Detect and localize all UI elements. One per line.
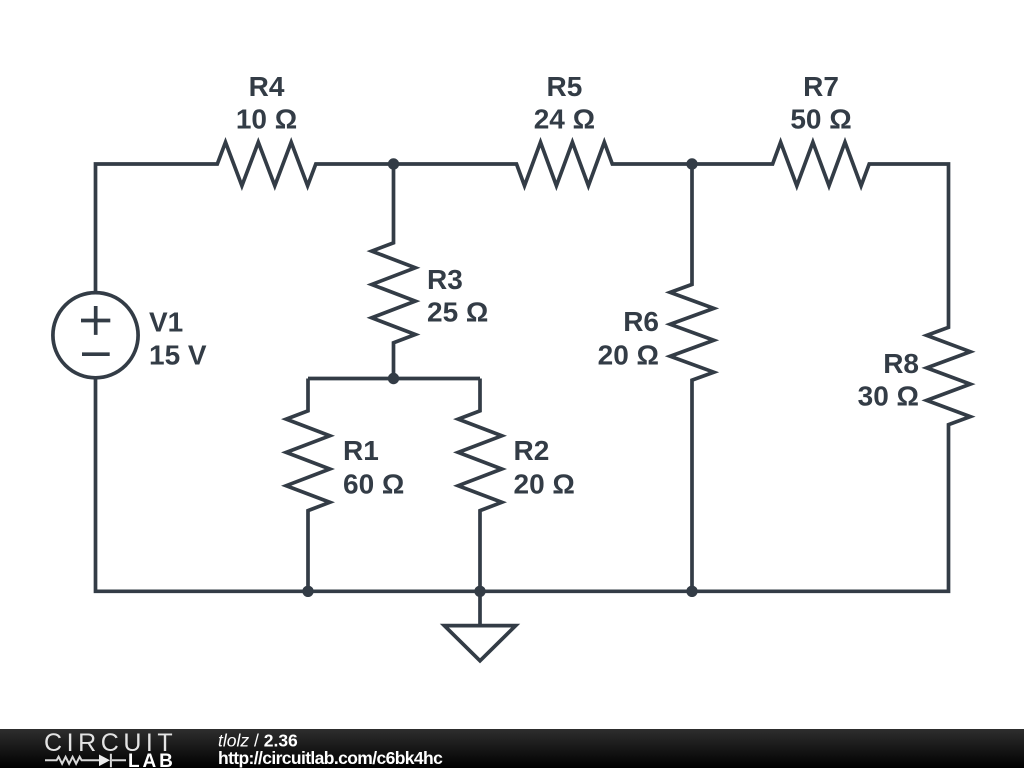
svg-text:R1: R1 — [343, 435, 379, 466]
svg-text:25 Ω: 25 Ω — [427, 296, 488, 327]
svg-text:10 Ω: 10 Ω — [236, 103, 297, 134]
svg-text:R3: R3 — [427, 264, 463, 295]
svg-text:60 Ω: 60 Ω — [343, 469, 404, 500]
svg-text:R7: R7 — [803, 71, 839, 102]
svg-text:15 V: 15 V — [149, 340, 207, 371]
svg-text:20 Ω: 20 Ω — [598, 339, 659, 370]
svg-text:24 Ω: 24 Ω — [534, 103, 595, 134]
svg-text:R2: R2 — [514, 435, 550, 466]
svg-text:R4: R4 — [249, 71, 285, 102]
svg-text:http://circuitlab.com/c6bk4hc: http://circuitlab.com/c6bk4hc — [218, 748, 443, 768]
svg-text:R6: R6 — [623, 306, 659, 337]
svg-text:V1: V1 — [149, 307, 183, 338]
svg-text:50 Ω: 50 Ω — [790, 103, 851, 134]
svg-text:30 Ω: 30 Ω — [858, 381, 919, 412]
svg-text:LAB: LAB — [128, 751, 173, 768]
svg-text:R8: R8 — [883, 348, 919, 379]
svg-text:R5: R5 — [547, 71, 583, 102]
svg-text:20 Ω: 20 Ω — [514, 469, 575, 500]
